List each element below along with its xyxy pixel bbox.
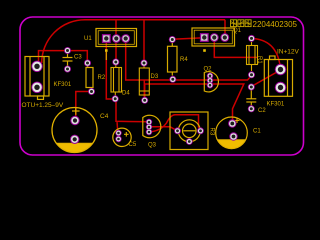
svg-text:C4: C4 [100,113,109,120]
svg-text:IN+12V: IN+12V [277,49,300,56]
label U1 [84,36,92,42]
label C1 [253,129,261,135]
terminal block KF301 left [25,57,49,100]
label R2 [98,75,106,81]
svg-text:R1: R1 [256,56,262,64]
transistor Q3 [143,115,161,138]
D4 pad bottom [112,95,119,102]
label Q3 [148,143,157,149]
svg-text:U1: U1 [84,36,92,42]
label R1 rotated [256,56,262,64]
svg-text:Q1: Q1 [233,28,242,34]
connector U1 [96,29,137,47]
wire R4 top to Q1 pad1 [172,38,204,40]
Q1 pin1 marker dot [203,49,206,52]
svg-text:C5: C5 [129,142,137,148]
C5 pad1 [115,130,121,136]
C4 pad2 [70,135,79,144]
transistor Q2 [204,72,218,92]
Q3 pad2 [146,124,152,130]
wire line B D3 bottom to Q2 pad3 to C1 [145,84,244,124]
Q1 pad3 [220,33,229,42]
wire C3 horizontal net [39,51,88,66]
C1 pad2 [229,132,237,140]
wire Q3 pad3 curve to R3 right pad [149,115,201,132]
svg-text:R3: R3 [209,128,215,136]
R1 pad top [248,35,255,42]
wire rail drop to Q1 pad3 [224,20,226,38]
label D3 [151,74,159,80]
label C5 [129,142,137,148]
label R3 rotated [209,128,215,136]
Q3 pad1 [146,119,152,125]
Q2 pad3 [207,82,213,88]
svg-text:KF301: KF301 [54,82,72,88]
C4 pad1 [70,116,79,125]
label designer name 张浩文2204402305 [231,20,298,29]
electrolytic capacitor C1 [216,117,248,149]
C1 plus mark [235,118,240,123]
board outline [20,17,304,155]
resistor R4 [168,43,178,76]
R4 pad top [169,36,176,43]
wire D4 bottom to Q3 pad1 and C5 [116,99,149,133]
label Q1 [233,28,242,34]
C5 plus mark [124,132,129,137]
C2 pad top [248,84,255,91]
wire R1 top arc to KF301R pad1 [252,38,281,69]
R3 pad right [197,127,204,134]
label D4 [122,91,130,97]
label KF301 left [54,82,72,88]
R2 pad top [84,60,91,67]
label C4 [100,113,109,120]
Q1 pad2 [210,33,219,42]
wire rail to D3 top [143,20,145,63]
KF301 right pad1 [275,64,286,75]
R3 pad left [174,127,181,134]
wire D3 body vertical [143,80,145,100]
svg-text:C3: C3 [74,55,82,61]
C1 pad1 [228,119,236,127]
label C2 [258,108,266,114]
svg-text:Q3: Q3 [148,143,157,149]
resistor R2 [86,65,93,89]
wire Q3 pad2 to R3 left pad [149,127,178,131]
svg-text:KF301: KF301 [267,102,285,108]
C3 pad top [64,47,71,54]
C5 pad2 [115,136,121,142]
label C3 [74,55,82,61]
U1 pad3 [121,34,130,43]
capacitor C3 [63,53,73,67]
D3 pad top [141,60,148,67]
C4 plus mark [72,107,80,115]
U1 pad2 [112,34,121,43]
D4 pad top [112,59,119,66]
electrolytic capacitor C5 [113,128,131,146]
resistor R1 [247,42,258,71]
diode D4 [111,65,122,96]
capacitor C2 [246,90,256,106]
label IN+12V [277,49,300,56]
wire Q1 pad2 elbow [214,38,257,58]
label KF301 right [267,102,285,108]
Q2 pad2 [207,77,213,83]
svg-text:C2: C2 [258,108,266,114]
C3 pad bottom [64,66,71,73]
Q2 pad1 [207,73,213,79]
diode D3 [139,66,149,96]
wire arc end to KF301 pad1 [37,62,41,66]
svg-text:D3: D3 [151,74,159,80]
wire KF301R pad1 to C2 top diagonal [251,70,280,87]
terminal block KF301 right [264,56,292,96]
KF301 right pad2 [275,82,286,93]
Q3 pad3 [146,129,152,135]
label R4 [180,57,188,63]
trimpot R3 [170,112,208,150]
electrolytic capacitor C4 [52,108,97,153]
svg-text:C1: C1 [253,129,261,135]
svg-text:Q2: Q2 [204,67,213,73]
R4 pad bottom [169,76,176,83]
svg-text:D4: D4 [122,91,130,97]
KF301 left pad1 [31,61,42,72]
wire U1 pad2 to D4 top [115,20,117,62]
svg-text:OTU+1.25–9V: OTU+1.25–9V [22,102,64,109]
connector Q1 [192,28,235,46]
U1 pad1 square [102,34,111,43]
Q1 pad1 square [200,33,209,42]
R1 pad bottom [248,71,255,78]
svg-text:R2: R2 [98,75,106,81]
wire line A U1 pad3 to Q2 R1 [126,39,252,81]
C2 pad bottom [248,105,255,112]
wire U1 pad1 to D4 bottom [106,39,115,100]
svg-text:R4: R4 [180,57,188,63]
R2 pad bottom [88,88,95,95]
D3 pad bottom [141,97,148,104]
wire R2 bottom to C4 pad1 [76,92,92,121]
R3 pad bottom [186,138,193,145]
label OTU+1.25-9V [22,102,64,109]
wire top power rail [42,20,225,63]
U1 pin1 marker dot [105,49,108,60]
label Q2 [204,67,213,73]
KF301 left pad2 [31,82,42,93]
svg-text:2204402305: 2204402305 [253,20,298,29]
